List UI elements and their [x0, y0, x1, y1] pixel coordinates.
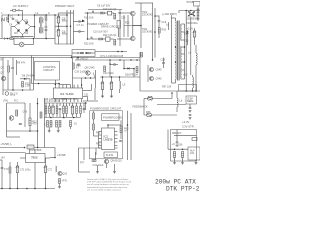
resistor R48	[136, 67, 138, 73]
capacitor C1	[12, 18, 15, 19]
wire	[63, 114, 65, 118]
wire	[127, 15, 129, 37]
wire	[72, 58, 74, 89]
resistor R2	[10, 38, 13, 40]
transistor Q8	[86, 71, 90, 75]
wire	[147, 65, 149, 82]
wire	[45, 114, 47, 118]
svg-text:POWERGOOD CIRCUIT: POWERGOOD CIRCUIT	[90, 106, 122, 110]
op-amp U1 TL494 PWM IC	[53, 88, 82, 99]
capacitor C38b	[83, 109, 86, 110]
capacitor C52	[197, 15, 200, 16]
wire	[81, 78, 83, 85]
diode block D12	[106, 37, 111, 41]
capacitor C20	[162, 63, 165, 64]
pin 11 stub bottom	[73, 99, 75, 103]
wire	[78, 148, 80, 172]
regulator block	[186, 96, 197, 104]
wire	[76, 103, 78, 106]
svg-text:C72: C72	[48, 169, 53, 172]
junction	[58, 25, 60, 27]
wire	[93, 119, 95, 124]
junction	[17, 188, 19, 190]
wire	[58, 23, 60, 30]
resistor R60a	[70, 121, 72, 127]
junction	[77, 57, 79, 59]
svg-text:+3.3V: +3.3V	[182, 120, 190, 124]
control circuit box	[35, 62, 60, 81]
pin 16 stub bottom	[54, 99, 56, 103]
wire	[7, 136, 21, 138]
svg-text:C9 1uF 50V: C9 1uF 50V	[97, 5, 111, 8]
svg-text:LM339: LM339	[104, 138, 113, 142]
wire	[58, 13, 60, 17]
wire	[154, 50, 156, 58]
wire	[16, 9, 18, 11]
wire	[194, 37, 196, 45]
powergood label box	[102, 114, 120, 121]
pin 12 stub bottom	[69, 99, 71, 103]
capacitor C10	[91, 37, 92, 40]
junction	[34, 188, 36, 190]
resistor R50	[45, 106, 47, 114]
wire	[22, 15, 24, 20]
wire	[35, 38, 51, 40]
svg-text:(TH): (TH)	[3, 99, 8, 102]
wire	[190, 28, 192, 45]
wire	[155, 15, 159, 17]
svg-text:C71 100u: C71 100u	[20, 169, 31, 172]
pin 4 stub top	[66, 85, 68, 89]
wire	[3, 89, 34, 91]
junction	[111, 76, 113, 78]
capacitor C3	[45, 30, 48, 31]
svg-text:(+160 350V): (+160 350V)	[162, 12, 177, 16]
wire	[20, 9, 23, 11]
wire	[132, 16, 134, 26]
capacitor C2	[45, 19, 48, 20]
svg-text:431: 431	[190, 152, 195, 155]
transistor Q7	[1, 76, 5, 80]
capacitor C30	[77, 64, 80, 65]
wire	[135, 2, 141, 4]
transistor Q9	[104, 159, 108, 163]
wire	[56, 103, 58, 106]
transformer T1 core	[178, 21, 180, 81]
svg-text:C41 10uF: C41 10uF	[93, 164, 104, 167]
capacitor C61	[189, 115, 192, 116]
junction	[22, 89, 24, 91]
wire	[59, 12, 74, 14]
junction	[45, 14, 47, 16]
wire	[14, 44, 19, 46]
svg-text:R16 1K8: R16 1K8	[84, 17, 94, 20]
inductor L1c	[41, 18, 44, 24]
wire	[51, 38, 56, 40]
junction	[127, 124, 129, 126]
wire	[94, 88, 96, 100]
pin stub right	[115, 131, 118, 133]
svg-text:R68 3K3: R68 3K3	[172, 132, 182, 135]
svg-text:POWERGOOD: POWERGOOD	[103, 116, 122, 120]
wire	[190, 45, 192, 75]
ground	[58, 187, 61, 189]
wire	[26, 78, 30, 80]
svg-text:C7 1n: C7 1n	[77, 23, 85, 27]
wire	[114, 164, 116, 172]
wire	[90, 52, 95, 54]
inductor L5	[120, 81, 121, 89]
wire	[54, 80, 56, 84]
transformer tap wire	[181, 39, 184, 41]
wire	[74, 21, 80, 23]
wire	[94, 135, 99, 137]
svg-text:C945: C945	[156, 78, 163, 81]
wire	[22, 10, 24, 15]
wire	[109, 60, 111, 77]
wire	[197, 6, 199, 21]
wire	[31, 26, 35, 28]
wire	[97, 165, 99, 172]
svg-text:C20: C20	[161, 59, 166, 62]
svg-text:R65: R65	[148, 96, 153, 99]
wire	[158, 22, 160, 28]
wire	[83, 103, 85, 109]
wire	[141, 2, 153, 4]
wire	[45, 24, 47, 30]
wire	[80, 31, 85, 33]
resistor R46	[104, 66, 106, 72]
wire	[124, 68, 127, 70]
resistor R56	[47, 121, 49, 128]
wire	[98, 132, 100, 149]
electrolytic capacitor C33	[100, 82, 104, 90]
pin 8 stub top	[81, 85, 83, 89]
svg-text:TL431: TL431	[106, 153, 114, 157]
svg-text:FEEDBACK: FEEDBACK	[133, 105, 148, 109]
junction	[54, 157, 56, 159]
wire	[139, 52, 141, 91]
diode D24	[186, 31, 188, 33]
wire	[120, 120, 122, 126]
varistor RV1	[2, 18, 4, 21]
junction	[7, 38, 9, 40]
svg-text:R23 1K8: R23 1K8	[84, 43, 94, 46]
junction	[81, 84, 83, 86]
capacitor C65	[176, 142, 179, 143]
wire	[133, 25, 141, 27]
wire	[80, 114, 82, 118]
wire	[33, 39, 35, 45]
core line	[40, 17, 42, 34]
wire	[107, 125, 109, 128]
wire AC line N	[0, 38, 34, 40]
wire	[76, 114, 78, 118]
voltage reference U3 TL431	[104, 152, 118, 158]
junction	[33, 38, 35, 40]
diode block D9	[108, 11, 112, 15]
svg-text:D1: D1	[15, 19, 19, 23]
wire	[57, 127, 59, 131]
wire	[158, 33, 160, 38]
wire	[123, 15, 125, 37]
pin stub right	[115, 141, 118, 143]
wire	[83, 100, 98, 102]
junction	[102, 76, 104, 78]
switch SW1	[18, 10, 19, 11]
svg-text:TH 2.5: TH 2.5	[10, 93, 18, 96]
wire	[22, 35, 24, 37]
wire	[58, 36, 60, 44]
wire	[130, 68, 135, 70]
junction	[90, 77, 92, 79]
junction	[85, 52, 87, 54]
wire bus	[0, 55, 72, 57]
resistor R53	[63, 106, 65, 114]
junction	[175, 61, 177, 63]
wire	[69, 103, 71, 106]
wire	[45, 158, 47, 166]
pin stub left	[99, 131, 102, 133]
wire	[80, 103, 82, 106]
ground	[101, 96, 104, 98]
capacitor C51	[197, 12, 200, 13]
wire	[192, 88, 194, 91]
wire	[72, 114, 74, 117]
wire	[88, 38, 91, 40]
svg-text:C1: C1	[10, 15, 14, 19]
junction	[37, 147, 39, 149]
junction	[87, 38, 89, 40]
diode D4	[24, 28, 29, 32]
transformer T1 secondary winding upper	[180, 24, 183, 41]
junction	[171, 92, 173, 94]
wire	[72, 52, 78, 54]
diode D22	[187, 13, 192, 18]
wire	[187, 34, 189, 46]
junction	[70, 25, 72, 27]
wire	[75, 59, 140, 61]
diode D20	[187, 10, 192, 15]
wire	[108, 124, 121, 126]
resistor network X2	[145, 113, 153, 117]
wire	[144, 98, 146, 100]
ground	[96, 172, 99, 174]
wire	[168, 148, 188, 150]
svg-text:see alt.comp.hardware schemati: see alt.comp.hardware schematic archive …	[87, 183, 129, 186]
junction	[54, 14, 56, 16]
wire	[190, 17, 192, 29]
fuse F1	[13, 9, 16, 11]
ground	[57, 131, 60, 133]
resistor R54	[66, 106, 68, 114]
protection circuit box	[72, 50, 95, 57]
inductor L7	[56, 166, 57, 172]
svg-text:470: 470	[32, 123, 37, 126]
wire	[45, 20, 47, 24]
wire	[174, 135, 197, 137]
wire	[63, 103, 65, 106]
resistor R18	[114, 14, 116, 20]
wire bus	[44, 102, 87, 104]
wire	[111, 90, 113, 97]
resistor network X1	[146, 97, 154, 101]
svg-text:C13: C13	[121, 17, 126, 20]
transformer T1 primary winding	[175, 21, 178, 80]
wire	[32, 83, 61, 85]
junction	[8, 14, 10, 16]
junction	[185, 10, 187, 12]
wire	[185, 11, 187, 46]
wire	[163, 58, 165, 63]
svg-text:7805: 7805	[31, 156, 38, 160]
wire	[56, 114, 58, 118]
transistor Q13	[149, 76, 153, 80]
wire	[87, 97, 89, 102]
svg-text:+5V: +5V	[1, 156, 6, 159]
wire	[55, 43, 74, 45]
svg-text:R77: R77	[80, 162, 85, 165]
capacitor C31	[114, 63, 115, 66]
resistor R75	[9, 167, 11, 173]
wire	[93, 111, 95, 113]
wire	[51, 14, 68, 16]
electrolytic capacitor C34	[109, 82, 113, 90]
junction	[109, 63, 111, 65]
transistor Q2	[131, 36, 136, 41]
junction	[123, 68, 125, 70]
capacitor C50	[197, 9, 200, 10]
wire rail	[154, 8, 156, 50]
ground	[48, 131, 51, 133]
wire	[49, 103, 51, 106]
pin 13 stub bottom	[66, 99, 68, 103]
wire	[29, 149, 31, 154]
wire	[11, 36, 34, 38]
svg-text:R57 10K: R57 10K	[162, 86, 172, 89]
wire	[175, 80, 177, 84]
junction	[184, 46, 186, 48]
wire	[59, 184, 61, 187]
wire	[100, 76, 140, 78]
wire	[9, 162, 11, 167]
junction	[192, 90, 194, 92]
electrolytic capacitor C6	[56, 30, 60, 37]
wire	[66, 10, 68, 44]
thermistor TH1	[5, 92, 9, 96]
wire	[153, 114, 177, 116]
wire	[45, 157, 50, 159]
junction	[29, 130, 31, 132]
pin 2 stub top	[58, 85, 60, 89]
svg-text:Q9 A1015: Q9 A1015	[111, 160, 123, 163]
wire	[7, 130, 38, 132]
svg-text:C32 100n: C32 100n	[103, 72, 114, 75]
wire	[0, 147, 25, 149]
svg-text:5VSB: 5VSB	[187, 0, 194, 4]
svg-text:+5V: +5V	[183, 74, 188, 77]
wire	[37, 98, 39, 148]
wire	[54, 148, 56, 158]
wire	[172, 17, 176, 19]
wire	[195, 160, 197, 163]
junction	[119, 76, 121, 78]
transformer tap wire	[181, 23, 184, 25]
transistor Q12	[149, 67, 153, 71]
svg-text:IC1 TL494: IC1 TL494	[60, 92, 74, 96]
pin stub left	[99, 138, 102, 140]
capacitor C44	[19, 124, 22, 125]
wire	[176, 107, 178, 112]
junction	[87, 12, 89, 14]
pin 14 stub bottom	[62, 99, 64, 103]
diode D2	[24, 21, 29, 25]
svg-text:+5VSB_L: +5VSB_L	[1, 142, 13, 146]
svg-text:R61: R61	[96, 132, 101, 135]
junction	[1, 188, 3, 190]
junction	[140, 25, 142, 27]
svg-text:C31: C31	[84, 94, 89, 97]
svg-text:NTC 105: NTC 105	[14, 36, 25, 39]
wire	[70, 127, 72, 130]
wire	[94, 12, 100, 14]
powergood circuit box	[90, 111, 123, 159]
wire	[133, 69, 135, 78]
electrolytic capacitor C71	[15, 166, 19, 173]
resistor R51	[49, 106, 51, 114]
3.3V regulation circuit box	[171, 130, 197, 162]
wire	[66, 103, 68, 106]
capacitor C9	[93, 11, 94, 14]
resistor R30	[158, 28, 160, 34]
electrolytic capacitor C38	[70, 106, 74, 114]
svg-text:2SC4242: 2SC4242	[142, 13, 153, 16]
resistor R20	[99, 38, 103, 40]
wire	[119, 77, 121, 81]
wire	[106, 164, 108, 168]
wire	[111, 77, 113, 82]
wire	[49, 114, 51, 118]
capacitor C7	[79, 20, 80, 23]
svg-text:C66: C66	[178, 143, 183, 146]
transformer tap wire	[181, 61, 184, 63]
wire	[7, 60, 9, 90]
wire	[115, 64, 118, 66]
junction	[85, 102, 87, 104]
regulator U4 7805	[26, 154, 46, 163]
pin 5 stub top	[69, 85, 71, 89]
resistor R12	[29, 118, 31, 126]
wire	[83, 148, 85, 160]
wire	[16, 60, 18, 75]
wire	[45, 103, 47, 106]
resistor R15	[22, 82, 24, 88]
bridge rectifier frame	[15, 20, 31, 35]
junction	[85, 77, 87, 79]
wire	[44, 117, 80, 119]
wire	[35, 14, 51, 16]
wire	[34, 147, 55, 149]
wire	[120, 133, 122, 140]
wire	[1, 15, 3, 39]
wire	[178, 11, 180, 14]
wire	[24, 44, 34, 46]
diode D23	[191, 13, 196, 18]
junction	[174, 148, 176, 150]
wire	[103, 38, 106, 40]
wire	[117, 38, 131, 40]
pin stub left	[99, 147, 102, 149]
